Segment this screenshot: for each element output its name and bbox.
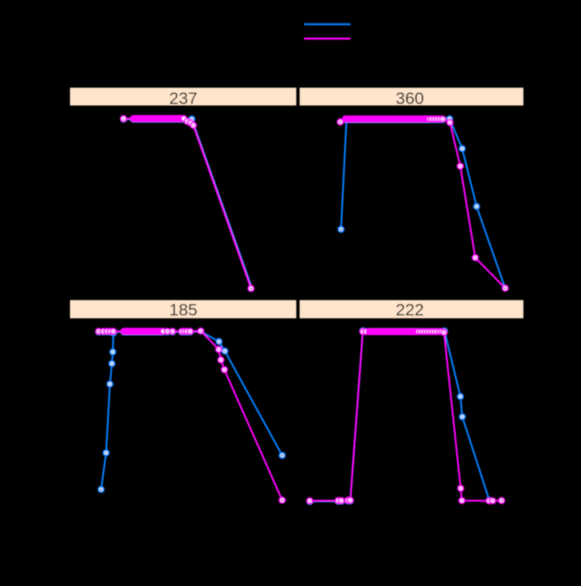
panel 185 magenta series line — [99, 331, 283, 500]
panel 237 magenta series line — [124, 119, 252, 289]
legend magenta key line — [304, 38, 351, 40]
panel 222 magenta series line — [310, 332, 502, 501]
panel 237 blue series points — [121, 116, 195, 122]
legend blue key line — [304, 23, 351, 25]
svg-text:222: 222 — [396, 301, 424, 320]
panel 222 magenta series points — [307, 329, 504, 504]
panel 237 blue series line — [124, 119, 252, 288]
strip 237 — [70, 88, 296, 106]
panel 222 blue series points — [307, 328, 492, 504]
panel 360 magenta series points — [338, 116, 508, 291]
panel 360 magenta series line — [340, 119, 505, 288]
panel 237 magenta series points — [121, 116, 254, 291]
strip 222 — [300, 300, 524, 318]
strip 185 — [70, 300, 296, 318]
svg-text:185: 185 — [169, 301, 197, 320]
svg-text:360: 360 — [396, 89, 424, 108]
panel 185 blue series points — [96, 329, 285, 492]
strip 360 — [300, 88, 524, 106]
panel 360 blue series line — [341, 119, 505, 288]
panel 185 blue series line — [101, 332, 282, 490]
panel 360 blue series points — [338, 116, 479, 232]
panel 185 magenta series points — [96, 328, 285, 503]
svg-text:237: 237 — [169, 89, 197, 108]
panel 222 blue series line — [310, 331, 490, 501]
